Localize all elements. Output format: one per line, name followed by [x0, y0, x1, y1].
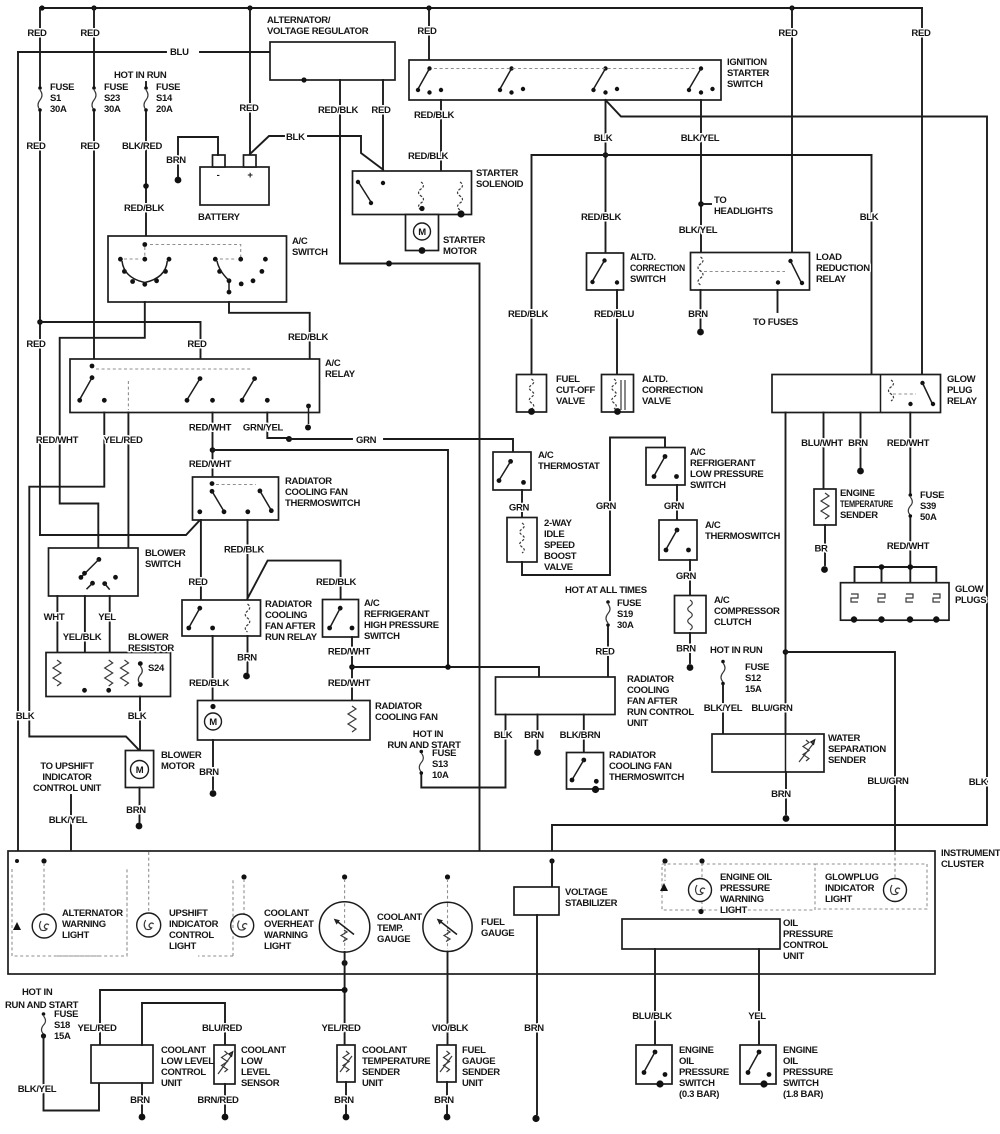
engine oil pressure switch 0.3 bar box [636, 1045, 672, 1084]
svg-text:RED/BLK: RED/BLK [224, 545, 265, 556]
A/C thermostat contact [508, 459, 513, 464]
svg-text:PRESSURE: PRESSURE [720, 883, 770, 894]
svg-text:15A: 15A [745, 684, 762, 695]
svg-text:MOTOR: MOTOR [161, 761, 195, 772]
engine oil pressure warning light [689, 879, 712, 902]
svg-text:ENGINE OIL: ENGINE OIL [720, 872, 772, 883]
svg-text:S1: S1 [50, 93, 62, 104]
svg-text:S18: S18 [54, 1020, 70, 1031]
svg-text:(1.8 BAR): (1.8 BAR) [783, 1089, 823, 1100]
node BRN ground dot temp sender unit [343, 1114, 350, 1121]
fuse S14 20A [144, 86, 148, 90]
node thermoswitch ground fat dot [592, 786, 599, 793]
svg-text:STABILIZER: STABILIZER [565, 898, 618, 909]
wire BRN temp sender ground [345, 1082, 347, 1113]
glow plug bus bar [855, 567, 937, 583]
node rail junction ignition [426, 5, 431, 10]
svg-text:A/C: A/C [690, 447, 706, 458]
svg-text:SENDER: SENDER [362, 1067, 400, 1078]
svg-text:RED/BLK: RED/BLK [288, 332, 329, 343]
node rail junction S1 [39, 5, 44, 10]
svg-text:RED: RED [911, 28, 931, 39]
svg-text:ALTD.: ALTD. [642, 374, 668, 385]
svg-text:A/C: A/C [538, 450, 554, 461]
svg-text:CONTROL: CONTROL [161, 1067, 206, 1078]
svg-text:CONTROL: CONTROL [783, 940, 828, 951]
svg-text:FUSE: FUSE [104, 82, 128, 93]
wire GRN thermoswitch to compressor clutch [689, 560, 691, 596]
svg-text:RED: RED [26, 141, 46, 152]
svg-text:YEL/RED: YEL/RED [77, 1023, 117, 1034]
svg-text:GLOW: GLOW [955, 584, 984, 595]
node BR ground dot temp sender [821, 566, 828, 573]
starter motor box [406, 215, 439, 251]
wire RED/BLK thermoswitch to after-run relay [247, 520, 249, 599]
fuse S12 15A [721, 660, 725, 664]
wire BRN control unit ground [537, 715, 539, 749]
svg-text:BR: BR [814, 544, 828, 555]
svg-text:LOW: LOW [241, 1056, 263, 1067]
svg-text:RED: RED [371, 105, 391, 116]
svg-text:RED: RED [80, 141, 100, 152]
wire BR temp sender ground [824, 525, 826, 565]
A/C switch box [108, 236, 287, 302]
node glow plug ground dots [851, 616, 857, 622]
node fan motor input dot [210, 704, 215, 709]
glow plugs box [841, 583, 950, 621]
coolant low level control unit box [91, 1045, 153, 1083]
node TO HEADLIGHTS tap [698, 201, 704, 207]
svg-text:S13: S13 [432, 759, 448, 770]
level sensor element [218, 1051, 231, 1074]
wire BLK ignition down to junction [605, 100, 607, 253]
svg-text:S19: S19 [617, 609, 633, 620]
svg-text:YEL: YEL [748, 1011, 766, 1022]
svg-text:LOW LEVEL: LOW LEVEL [161, 1056, 214, 1067]
wire WHT blower switch to resistor [56, 596, 58, 653]
coolant temperature sender unit box [337, 1045, 355, 1082]
load reduction relay coil [698, 257, 703, 285]
cluster internal dashed links [44, 852, 895, 914]
svg-text:BATTERY: BATTERY [198, 212, 241, 223]
svg-text:TO UPSHIFT: TO UPSHIFT [40, 761, 94, 772]
A/C switch rotary wafer 1 [142, 242, 147, 247]
svg-text:20A: 20A [156, 104, 173, 115]
svg-text:HEADLIGHTS: HEADLIGHTS [714, 206, 773, 217]
upshift indicator control light [137, 913, 161, 937]
glow plug elements [851, 594, 940, 602]
svg-text:BLK: BLK [969, 777, 988, 788]
svg-text:OIL: OIL [783, 918, 798, 929]
wire BLK/BRN control unit to fan thermoswitch [583, 715, 585, 753]
svg-text:BRN: BRN [771, 789, 791, 800]
svg-text:COOLANT: COOLANT [377, 912, 422, 923]
radiator cooling fan thermoswitch (lower) box [567, 753, 604, 790]
fuel cut-off valve box [517, 375, 547, 413]
svg-text:RED/WHT: RED/WHT [887, 541, 930, 552]
svg-text:10A: 10A [432, 770, 449, 781]
oil pressure control unit box [622, 919, 780, 949]
wire RED/WHT A/C switch to blower switch [60, 302, 145, 548]
svg-text:COOLANT: COOLANT [241, 1045, 286, 1056]
svg-text:2-WAY: 2-WAY [544, 518, 573, 529]
svg-text:RELAY: RELAY [816, 274, 847, 285]
svg-text:PRESSURE: PRESSURE [783, 929, 833, 940]
wire TO FUSES stub [777, 290, 779, 312]
fuel gauge [423, 902, 472, 951]
svg-text:TEMP.: TEMP. [377, 923, 403, 934]
svg-text:PRESSURE: PRESSURE [679, 1067, 729, 1078]
svg-text:50A: 50A [920, 512, 937, 523]
svg-text:REFRIGERANT: REFRIGERANT [690, 458, 756, 469]
wire BRN fuel sender ground [446, 1082, 448, 1113]
svg-text:RED/BLK: RED/BLK [408, 151, 449, 162]
svg-text:UNIT: UNIT [462, 1078, 483, 1089]
svg-text:RED/BLK: RED/BLK [508, 309, 549, 320]
node BRN ground dot cooling fan [210, 790, 217, 797]
A/C relay contact 3 [252, 376, 257, 381]
svg-text:RADIATOR: RADIATOR [285, 476, 332, 487]
svg-text:M: M [209, 717, 217, 728]
svg-text:GRN: GRN [664, 501, 685, 512]
svg-text:CORRECTION: CORRECTION [642, 385, 703, 396]
node solenoid output fat dot [457, 210, 464, 217]
svg-text:S12: S12 [745, 673, 761, 684]
svg-text:REFRIGERANT: REFRIGERANT [364, 609, 430, 620]
node BLU/GRN junction [783, 649, 789, 655]
ignition switch dashed linkage [434, 68, 696, 70]
A/C relay NC stub [306, 404, 311, 409]
wire RED/BLK after-run relay coil to HP switch [248, 561, 341, 600]
svg-text:SWITCH: SWITCH [364, 631, 400, 642]
oil switch 2 contact [757, 1050, 762, 1055]
svg-text:BLK: BLK [594, 133, 613, 144]
starter solenoid contact [356, 180, 360, 184]
svg-text:THERMOSWITCH: THERMOSWITCH [705, 531, 780, 542]
svg-text:BLK: BLK [860, 212, 879, 223]
svg-text:UNIT: UNIT [627, 718, 648, 729]
svg-text:VIO/BLK: VIO/BLK [432, 1023, 469, 1034]
svg-text:RED: RED [595, 647, 615, 658]
svg-text:LIGHT: LIGHT [169, 941, 196, 952]
svg-text:TEMPERATURE: TEMPERATURE [840, 499, 893, 510]
svg-text:BLOWER: BLOWER [161, 750, 202, 761]
svg-text:S24: S24 [148, 663, 165, 674]
svg-text:LIGHT: LIGHT [62, 930, 89, 941]
wire BLK ignition accessory run to far right [552, 100, 987, 851]
node BRN ground dot [139, 1114, 146, 1121]
svg-text:YEL/RED: YEL/RED [103, 435, 143, 446]
wire GRN LP switch to A/C thermoswitch [676, 485, 678, 520]
blower motor symbol [131, 761, 149, 779]
svg-text:ALTD.: ALTD. [630, 252, 656, 263]
svg-text:BLK/YEL: BLK/YEL [681, 133, 720, 144]
wire GRN idle valve to LP switch [522, 438, 665, 576]
wire BRN clutch ground [689, 633, 691, 663]
wire BRN after-run relay ground [247, 636, 249, 672]
starter solenoid hold coil [458, 182, 463, 210]
svg-text:CONTROL: CONTROL [169, 930, 214, 941]
svg-text:VALVE: VALVE [642, 396, 671, 407]
node BRN ground dot battery [175, 177, 182, 184]
svg-text:BRN/RED: BRN/RED [197, 1095, 239, 1106]
alternator/voltage regulator box [270, 42, 395, 80]
svg-text:SPEED: SPEED [544, 540, 575, 551]
radiator cooling fan after run control unit box [496, 677, 616, 715]
wire YEL control unit to oil switch 2 [758, 949, 760, 1045]
water sender element [799, 740, 813, 762]
svg-text:YEL: YEL [98, 612, 116, 623]
svg-text:GAUGE: GAUGE [377, 934, 410, 945]
node BLK junction y155 [603, 152, 609, 158]
svg-text:LIGHT: LIGHT [825, 894, 852, 905]
fuse S39 50A [909, 493, 913, 497]
wire YEL/RED A/C relay to blower switch [127, 413, 129, 549]
svg-text:LEVEL: LEVEL [241, 1067, 271, 1078]
svg-text:CONTROL UNIT: CONTROL UNIT [33, 783, 101, 794]
svg-text:HOT IN RUN: HOT IN RUN [114, 70, 167, 81]
svg-text:WHT: WHT [44, 612, 65, 623]
glow plug relay box [772, 375, 941, 413]
node glow bus junctions [879, 564, 885, 570]
svg-text:RED/WHT: RED/WHT [328, 678, 371, 689]
wire feed fuse S14 [145, 82, 147, 86]
ignition starter switch box [409, 60, 721, 100]
wire GRN to A/C thermostat [289, 439, 513, 452]
svg-text:BRN: BRN [688, 309, 708, 320]
wire BLU/GRN glow relay to water separation sender [785, 413, 787, 735]
A/C thermoswitch box [659, 520, 697, 560]
svg-text:UNIT: UNIT [783, 951, 804, 962]
svg-text:RED/WHT: RED/WHT [887, 438, 930, 449]
node BRN ground dot clutch [687, 664, 694, 671]
node alternator internal terminal [301, 77, 306, 82]
svg-text:UPSHIFT: UPSHIFT [169, 908, 208, 919]
fuel cut-off valve coil [529, 379, 534, 409]
svg-text:BRN: BRN [524, 1023, 544, 1034]
node GRN junction [286, 436, 292, 442]
svg-text:PRESSURE: PRESSURE [783, 1067, 833, 1078]
svg-text:OVERHEAT: OVERHEAT [264, 919, 314, 930]
node dot on starter ground run [386, 261, 392, 267]
svg-text:YEL/RED: YEL/RED [321, 1023, 361, 1034]
wire BRN glow relay ground [860, 413, 862, 468]
engine temperature sender box [814, 489, 836, 525]
wire RED thermoswitch to after-run relay [200, 520, 202, 600]
wire RED battery feed from rail [249, 8, 251, 155]
engine oil pressure switch 1.8 bar box [740, 1045, 776, 1084]
svg-text:RUN RELAY: RUN RELAY [265, 632, 318, 643]
A/C refrigerant low pressure switch box [646, 448, 685, 486]
svg-text:CUT-OFF: CUT-OFF [556, 385, 596, 396]
svg-text:WATER: WATER [828, 733, 861, 744]
starter solenoid box [353, 171, 472, 215]
svg-text:STARTER: STARTER [443, 235, 485, 246]
wire RED/WHT fuse S39 to glow plugs [909, 518, 911, 567]
svg-text:BLU/WHT: BLU/WHT [801, 438, 843, 449]
starter motor symbol [414, 223, 431, 240]
svg-text:THERMOSWITCH: THERMOSWITCH [609, 772, 684, 783]
node oil switch 2 ground fat dot [760, 1080, 767, 1087]
svg-text:SENDER: SENDER [462, 1067, 500, 1078]
fan motor symbol [205, 713, 222, 730]
svg-text:FUSE: FUSE [50, 82, 74, 93]
svg-text:A/C: A/C [714, 595, 730, 606]
svg-text:OIL: OIL [783, 1056, 798, 1067]
wire RED rail to load reduction relay [791, 8, 793, 253]
wire BLU/BLK control unit to oil switch 1 [654, 949, 656, 1045]
svg-text:S23: S23 [104, 93, 120, 104]
svg-text:BRN: BRN [126, 805, 146, 816]
svg-text:BLK: BLK [286, 132, 305, 143]
node altd valve ground terminal [614, 408, 621, 415]
svg-text:YEL/BLK: YEL/BLK [63, 632, 102, 643]
svg-text:RADIATOR: RADIATOR [627, 674, 674, 685]
node BRN ground dot glow relay [857, 468, 864, 475]
altitude correction valve coil [612, 379, 617, 409]
svg-text:COOLING: COOLING [265, 610, 307, 621]
wire BRN control unit ground [141, 1083, 143, 1113]
svg-text:RUN CONTROL: RUN CONTROL [627, 707, 694, 718]
svg-text:BRN: BRN [848, 438, 868, 449]
wire BLK A/C relay to blower motor [29, 413, 139, 751]
svg-text:COMPRESSOR: COMPRESSOR [714, 606, 780, 617]
svg-text:SWITCH: SWITCH [145, 559, 181, 570]
svg-text:VALVE: VALVE [556, 396, 585, 407]
svg-text:RUN AND START: RUN AND START [387, 740, 461, 751]
wire BRN voltage stabilizer ground [536, 915, 538, 1114]
svg-text:TEMPERATURE: TEMPERATURE [362, 1056, 430, 1067]
wire BRN blower motor ground [139, 788, 141, 823]
svg-text:COOLANT: COOLANT [362, 1045, 407, 1056]
altitude correction switch box [587, 253, 624, 290]
radiator cooling fan after run relay box [182, 600, 261, 636]
wire RED ignition feed from rail [428, 8, 430, 60]
svg-text:BRN: BRN [130, 1095, 150, 1106]
svg-text:SENDER: SENDER [840, 510, 878, 521]
load reduction relay box [691, 253, 810, 291]
wire RED/WHT distribution to control unit [352, 667, 539, 677]
svg-text:FAN AFTER: FAN AFTER [265, 621, 316, 632]
ignition switch contact set 1 [427, 66, 431, 70]
svg-text:RED/BLK: RED/BLK [318, 105, 359, 116]
svg-text:SWITCH: SWITCH [630, 274, 666, 285]
wire RED below fuse S23 to A/C relay [93, 112, 95, 359]
wire RED/WHT glow relay to fuse S39 [909, 413, 911, 495]
lower thermoswitch contact [581, 758, 586, 763]
wire RED/WHT A/C relay to thermoswitch [212, 413, 214, 477]
radiator cooling fan thermoswitch box [193, 477, 279, 520]
wire BLK/YEL ignition to load reduction relay [700, 100, 702, 253]
coolant overheat warning light [231, 914, 254, 937]
wire RED/BLK to fuel cut-off valve [531, 155, 533, 375]
ignition switch contact set 3 [603, 66, 607, 70]
svg-text:INDICATOR: INDICATOR [42, 772, 92, 783]
altitude correction switch contact [602, 258, 606, 262]
water separation sender box [712, 734, 824, 772]
svg-text:RED: RED [188, 577, 208, 588]
altitude correction valve box [602, 375, 634, 413]
svg-text:INSTRUMENT: INSTRUMENT [941, 848, 1000, 859]
node BRN ground dot fuel sender [444, 1114, 451, 1121]
compressor clutch coil [688, 600, 693, 630]
svg-text:RED/BLU: RED/BLU [594, 309, 635, 320]
svg-text:RED/BLK: RED/BLK [581, 212, 622, 223]
svg-text:FUSE: FUSE [745, 662, 769, 673]
wire RED/WHT branch to control unit feed [213, 450, 449, 667]
svg-text:BLK: BLK [128, 711, 147, 722]
svg-text:TO: TO [714, 195, 726, 206]
wire BRN water sender ground [785, 772, 787, 814]
wire BLK control unit to fuse S13 [421, 715, 505, 788]
wire RED/BLK from alternator down to instrument cluster (long) [340, 80, 480, 851]
wire GRN/YEL A/C relay to GRN line [267, 413, 289, 439]
A/C switch rotary wafer 2 [150, 245, 241, 260]
svg-text:LOAD: LOAD [816, 252, 842, 263]
svg-text:BLU/GRN: BLU/GRN [867, 776, 909, 787]
node splice on S14 wire [143, 183, 149, 189]
svg-text:30A: 30A [50, 104, 67, 115]
wire BRN/RED sensor ground [224, 1084, 226, 1113]
svg-text:BLU: BLU [170, 47, 189, 58]
cluster dashed group outlines [12, 869, 233, 956]
svg-text:BLK: BLK [16, 711, 35, 722]
svg-text:PLUGS: PLUGS [955, 595, 986, 606]
node temp gauge bottom dot [342, 960, 348, 966]
svg-text:RED: RED [80, 28, 100, 39]
glow plug relay coil dashed [889, 380, 894, 401]
LP switch contact [663, 454, 668, 459]
load reduction relay contact [788, 259, 792, 263]
svg-text:BRN: BRN [434, 1095, 454, 1106]
2-way idle speed boost valve box [507, 518, 537, 563]
svg-text:BRN: BRN [237, 653, 257, 664]
node oil switch 1 ground fat dot [656, 1080, 663, 1087]
svg-text:SOLENOID: SOLENOID [476, 179, 524, 190]
wire BLK resistor to blower motor [139, 697, 141, 751]
wire RED/BLU altd switch to altd valve [616, 290, 618, 375]
wire BLU/WHT glow relay to engine temp sender [823, 413, 825, 490]
svg-text:FUEL: FUEL [481, 917, 505, 928]
svg-text:OIL: OIL [679, 1056, 694, 1067]
A/C thermostat box [493, 452, 531, 490]
svg-text:CLUTCH: CLUTCH [714, 617, 752, 628]
svg-text:BLU/RED: BLU/RED [202, 1023, 243, 1034]
svg-text:+: + [247, 170, 253, 181]
blower resistor elements [53, 660, 61, 686]
svg-text:BRN: BRN [524, 730, 544, 741]
svg-text:FUSE: FUSE [617, 598, 641, 609]
svg-text:STARTER: STARTER [727, 68, 769, 79]
node solenoid coil terminal [419, 206, 424, 211]
svg-text:RED/WHT: RED/WHT [328, 647, 371, 658]
wire RED fuse S19 to control unit [607, 627, 609, 677]
coolant low level sensor box [214, 1045, 235, 1084]
svg-text:RADIATOR: RADIATOR [265, 599, 312, 610]
node oil light lower dot [698, 909, 703, 914]
svg-text:RELAY: RELAY [947, 396, 978, 407]
node junction YEL/RED [342, 987, 348, 993]
svg-text:FUSE: FUSE [156, 82, 180, 93]
fuse S19 30A [606, 600, 610, 604]
wire BRN load relay ground [700, 290, 702, 328]
node BRN ground dot control unit [534, 749, 541, 756]
wire RED/BLK ignition to starter solenoid [440, 100, 442, 171]
svg-text:BRN: BRN [199, 767, 219, 778]
svg-text:BLK/YEL: BLK/YEL [679, 225, 718, 236]
svg-text:A/C: A/C [364, 598, 380, 609]
svg-text:RESISTOR: RESISTOR [128, 643, 174, 654]
